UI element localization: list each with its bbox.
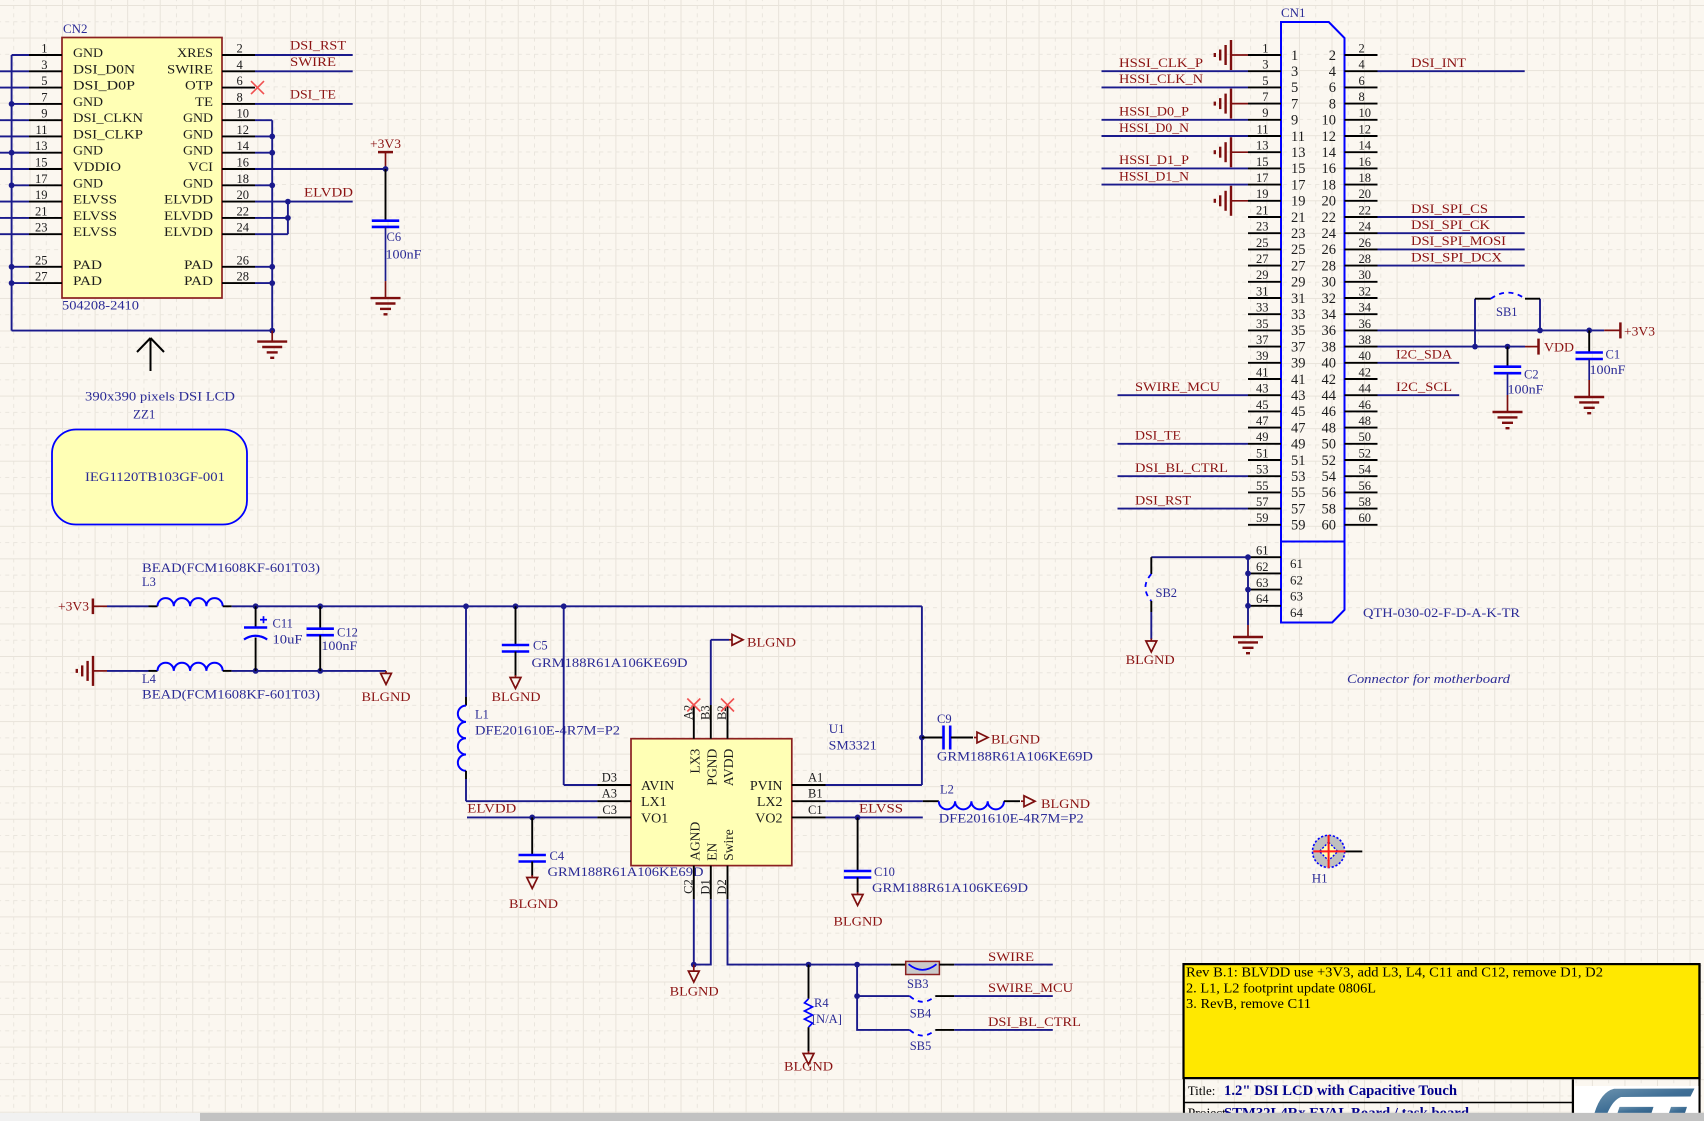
wire CN2 pin 13 to sheet edge: [0, 152, 29, 154]
CN2 pin 27 (PAD): [29, 282, 62, 284]
svg-text:24: 24: [1322, 226, 1337, 242]
wire SWIRE: [954, 964, 1053, 966]
svg-text:VDD: VDD: [1544, 340, 1574, 355]
CN1 pin 53: [1248, 475, 1281, 477]
svg-text:BLGND: BLGND: [509, 896, 558, 911]
svg-text:GRM188R61A106KE69D: GRM188R61A106KE69D: [872, 881, 1028, 895]
svg-text:L2: L2: [940, 783, 954, 797]
svg-text:1: 1: [41, 42, 47, 56]
CN1 pin 50: [1345, 443, 1378, 445]
svg-text:DSI_SPI_MOSI: DSI_SPI_MOSI: [1411, 233, 1506, 248]
CN1 pin 5: [1248, 86, 1281, 88]
wire CN1 pins 61-64 to ground: [1247, 557, 1249, 625]
wire HSSI_D0_P: [1102, 119, 1249, 121]
svg-text:GND: GND: [183, 175, 213, 190]
svg-text:L3: L3: [142, 575, 156, 589]
capacitor C2: [1507, 347, 1509, 367]
svg-text:I2C_SCL: I2C_SCL: [1396, 379, 1452, 394]
svg-text:DSI_SPI_DCX: DSI_SPI_DCX: [1411, 249, 1503, 264]
CN2 pin 15 (VDDIO): [29, 168, 62, 170]
svg-text:A1: A1: [808, 771, 823, 785]
svg-text:6: 6: [237, 74, 243, 88]
svg-text:R4: R4: [814, 996, 829, 1010]
wire +3V3 rail to U1: [232, 605, 922, 607]
svg-text:ELVSS: ELVSS: [73, 224, 117, 239]
CN1 pin 34: [1345, 313, 1378, 315]
svg-text:20: 20: [1359, 187, 1372, 201]
svg-text:BLGND: BLGND: [784, 1058, 833, 1073]
svg-text:C6: C6: [387, 230, 402, 244]
svg-text:57: 57: [1291, 501, 1306, 517]
solder bridge SB3 (closed): [891, 964, 906, 966]
svg-text:5: 5: [1262, 74, 1268, 88]
CN1 pin 46: [1345, 410, 1378, 412]
CN2 pin 18 (GND): [222, 184, 255, 186]
junction Swire branch: [854, 962, 860, 968]
svg-text:DSI_TE: DSI_TE: [290, 86, 336, 101]
wire CN2 pin 18 to right GND bus: [255, 184, 272, 186]
svg-text:AGND: AGND: [687, 822, 702, 861]
wire SWIRE_MCU: [954, 995, 1053, 997]
svg-text:DSI_RST: DSI_RST: [290, 38, 346, 53]
svg-text:SB1: SB1: [1496, 305, 1518, 319]
wire AGND down: [693, 899, 695, 964]
U1 pin A1 (PVIN): [792, 784, 826, 786]
capacitor C12: [319, 606, 321, 628]
svg-text:54: 54: [1322, 469, 1337, 485]
svg-text:18: 18: [237, 172, 250, 186]
svg-text:SB4: SB4: [910, 1007, 932, 1021]
junction right GND bus pin 28: [269, 280, 275, 286]
svg-text:63: 63: [1290, 589, 1303, 604]
svg-text:D2: D2: [715, 879, 729, 894]
CN2 pin 17 (GND): [29, 184, 62, 186]
wire VDD net from CN1 pin 38: [1378, 346, 1526, 348]
CN1 pin 31: [1248, 297, 1281, 299]
connector CN2 body: [62, 38, 222, 299]
wire ELVSS from VO2: [826, 816, 923, 818]
CN1 pin 43: [1248, 394, 1281, 396]
svg-text:VDDIO: VDDIO: [73, 159, 121, 174]
wire I2C_SDA: [1378, 362, 1460, 364]
CN2 pin 1 (GND): [29, 54, 62, 56]
power port +3V3 right: [1604, 329, 1620, 331]
svg-text:61: 61: [1290, 556, 1303, 571]
svg-text:9: 9: [1262, 106, 1268, 120]
svg-text:IEG1120TB103GF-001: IEG1120TB103GF-001: [85, 469, 225, 484]
svg-text:35: 35: [1256, 317, 1269, 331]
power port VDD: [1525, 346, 1539, 348]
svg-text:DSI_BL_CTRL: DSI_BL_CTRL: [1135, 460, 1228, 475]
CN1 pin 15: [1248, 167, 1281, 169]
svg-text:58: 58: [1359, 495, 1372, 509]
svg-text:49: 49: [1256, 430, 1269, 444]
wire HSSI_CLK_P: [1102, 70, 1249, 72]
CN1 pin 37: [1248, 346, 1281, 348]
svg-text:ELVSS: ELVSS: [859, 800, 903, 815]
svg-text:CN1: CN1: [1281, 5, 1306, 20]
junction SWIRE_MCU branch: [854, 993, 860, 999]
svg-text:BLGND: BLGND: [492, 689, 541, 704]
U1 pin B2 (AVDD): [727, 705, 729, 739]
U1 pin D1 (EN): [710, 866, 712, 900]
wire DSI_BL_CTRL lower: [954, 1029, 1053, 1031]
svg-text:56: 56: [1359, 479, 1372, 493]
CN2 pin 10 (GND): [222, 119, 255, 121]
U1 pin B3 (PGND): [710, 705, 712, 739]
svg-text:SWIRE: SWIRE: [988, 949, 1034, 964]
svg-text:D3: D3: [602, 771, 617, 785]
svg-text:1: 1: [1291, 48, 1298, 64]
svg-text:4: 4: [1329, 64, 1337, 80]
svg-text:43: 43: [1256, 382, 1269, 396]
power port BLGND below C4: [531, 875, 533, 878]
CN2 pin 22 (ELVDD): [222, 217, 255, 219]
wire CN2 pin 11 to sheet edge: [0, 135, 29, 137]
svg-text:2: 2: [1329, 48, 1336, 64]
svg-text:BLGND: BLGND: [834, 914, 883, 929]
CN1 pin 52: [1345, 459, 1378, 461]
junction ELVDD pin 20: [285, 199, 291, 205]
wire AVIN branch: [563, 606, 565, 785]
svg-text:25: 25: [1256, 236, 1269, 250]
svg-text:8: 8: [1329, 96, 1336, 112]
svg-text:25: 25: [1291, 242, 1306, 258]
CN1 pin 40: [1345, 362, 1378, 364]
wire CN2 pin 15 to sheet edge: [0, 168, 29, 170]
svg-text:31: 31: [1291, 291, 1306, 307]
svg-text:60: 60: [1322, 518, 1337, 534]
svg-text:62: 62: [1290, 572, 1303, 587]
ground symbol at CN1 pin 19: [1231, 200, 1248, 202]
svg-text:C2: C2: [682, 879, 696, 894]
svg-text:L4: L4: [142, 672, 157, 686]
junction GND bus pin 25: [9, 264, 15, 270]
junction ELVSS C10: [855, 815, 861, 821]
svg-text:33: 33: [1291, 307, 1306, 323]
CN1 pin 64: [1248, 605, 1281, 607]
inductor L1: [465, 606, 467, 697]
svg-text:B1: B1: [808, 787, 823, 801]
svg-text:10: 10: [237, 107, 250, 121]
CN1 pin 27: [1248, 265, 1281, 267]
svg-text:46: 46: [1322, 404, 1337, 420]
U1 pin D3 (AVIN): [597, 784, 631, 786]
CN2 pin 6 (OTP): [222, 87, 255, 89]
CN1 pin 14: [1345, 151, 1378, 153]
svg-text:32: 32: [1322, 291, 1337, 307]
svg-text:8: 8: [237, 90, 243, 104]
wire to SB4/SB5: [857, 965, 910, 1030]
svg-text:60: 60: [1359, 511, 1372, 525]
svg-text:13: 13: [35, 139, 48, 153]
svg-text:DSI_BL_CTRL: DSI_BL_CTRL: [988, 1014, 1081, 1029]
wire CN2 pin 1 to GND bus: [12, 54, 29, 56]
svg-text:AVIN: AVIN: [641, 779, 674, 794]
CN1 pin 44: [1345, 394, 1378, 396]
svg-text:58: 58: [1322, 501, 1337, 517]
wire CN2 pin 17 to GND bus: [12, 184, 29, 186]
CN2 pin 24 (ELVDD): [222, 233, 255, 235]
power port BLGND below SB2: [1150, 639, 1152, 642]
junction AGND/EN: [691, 962, 697, 968]
svg-text:9: 9: [1291, 113, 1298, 129]
CN1 pin 11: [1248, 135, 1281, 137]
svg-text:27: 27: [1256, 252, 1269, 266]
ST logo: [1575, 1086, 1699, 1113]
svg-text:BLGND: BLGND: [1041, 796, 1090, 811]
svg-text:4: 4: [1359, 58, 1366, 72]
wire ELVDD pins 20/22/24: [255, 201, 288, 203]
svg-text:53: 53: [1291, 469, 1306, 485]
CN2 pin 14 (GND): [222, 152, 255, 154]
svg-text:SWIRE_MCU: SWIRE_MCU: [988, 980, 1074, 995]
svg-text:VO1: VO1: [641, 811, 668, 826]
svg-text:BLGND: BLGND: [670, 984, 719, 999]
junction SB1 right leg: [1537, 328, 1543, 334]
regulator U1 body: [631, 739, 792, 866]
svg-text:21: 21: [35, 204, 48, 218]
wire HSSI_D0_N: [1102, 135, 1249, 137]
CN2 pin 2 (XRES): [222, 54, 255, 56]
svg-text:SWIRE: SWIRE: [167, 61, 213, 76]
wire DSI_SPI_DCX: [1378, 265, 1525, 267]
CN1 pin 24: [1345, 232, 1378, 234]
inductor L2: [923, 800, 939, 802]
junction C2 top: [1505, 344, 1511, 350]
junction pin 63: [1245, 587, 1251, 593]
wire EN down to AGND: [694, 899, 711, 964]
svg-text:52: 52: [1322, 453, 1337, 469]
CN1 pin 55: [1248, 491, 1281, 493]
power port BLGND below C5: [515, 675, 517, 678]
solder bridge SB4 (open): [910, 996, 936, 1002]
svg-text:VCI: VCI: [188, 159, 213, 174]
svg-text:23: 23: [1256, 220, 1269, 234]
svg-text:C2: C2: [1524, 367, 1539, 381]
svg-text:12: 12: [237, 123, 250, 137]
svg-text:7: 7: [1291, 96, 1298, 112]
svg-text:50: 50: [1322, 437, 1337, 453]
CN1 pin 61: [1248, 556, 1281, 558]
svg-text:5: 5: [41, 74, 47, 88]
wire PGND to BLGND: [710, 640, 712, 705]
svg-text:63: 63: [1256, 576, 1269, 590]
svg-text:32: 32: [1359, 284, 1372, 298]
svg-text:HSSI_D0_N: HSSI_D0_N: [1119, 120, 1190, 135]
svg-text:DFE201610E-4R7M=P2: DFE201610E-4R7M=P2: [939, 812, 1084, 826]
svg-text:CN2: CN2: [63, 21, 88, 36]
svg-text:OTP: OTP: [185, 78, 213, 93]
svg-text:28: 28: [237, 270, 250, 284]
solder bridge SB5 (open): [910, 1030, 936, 1036]
svg-text:Title:: Title:: [1188, 1083, 1216, 1098]
CN1 pin 12: [1345, 135, 1378, 137]
svg-text:42: 42: [1359, 365, 1372, 379]
wire CN2 pin 23 to sheet edge: [0, 233, 29, 235]
svg-text:B3: B3: [699, 705, 713, 720]
CN1 pin 22: [1345, 216, 1378, 218]
junction GND bus pin 7: [9, 101, 15, 107]
svg-text:U1: U1: [829, 721, 845, 736]
svg-text:BEAD(FCM1608KF-601T03): BEAD(FCM1608KF-601T03): [142, 561, 320, 575]
ground symbol below pins 61-64: [1247, 625, 1249, 637]
junction GND bus pin 13: [9, 150, 15, 156]
wire GND bus right of CN2: [271, 120, 273, 330]
svg-text:DSI_SPI_CK: DSI_SPI_CK: [1411, 217, 1491, 232]
wire CN2 pin 13 to GND bus: [12, 152, 29, 154]
CN1 pin 35: [1248, 329, 1281, 331]
svg-text:ELVDD: ELVDD: [164, 192, 213, 207]
svg-text:18: 18: [1322, 177, 1337, 193]
svg-text:PVIN: PVIN: [750, 779, 783, 794]
svg-text:40: 40: [1359, 349, 1372, 363]
svg-text:ELVSS: ELVSS: [73, 192, 117, 207]
junction rail AVIN branch: [561, 603, 567, 609]
wire GND bus left of CN2: [11, 55, 13, 331]
svg-text:BLGND: BLGND: [1126, 652, 1175, 667]
svg-text:41: 41: [1291, 372, 1306, 388]
svg-text:QTH-030-02-F-D-A-K-TR: QTH-030-02-F-D-A-K-TR: [1363, 605, 1520, 620]
svg-text:59: 59: [1291, 518, 1306, 534]
svg-text:GND: GND: [73, 143, 103, 158]
junction right GND bus pin 18: [269, 182, 275, 188]
CN1 pin 30: [1345, 281, 1378, 283]
svg-text:43: 43: [1291, 388, 1306, 404]
wire PVIN: [826, 784, 922, 786]
power port BLGND right of PGND: [729, 639, 732, 641]
CN1 pin 60: [1345, 524, 1378, 526]
svg-text:DSI_D0P: DSI_D0P: [73, 78, 135, 93]
svg-text:50: 50: [1359, 430, 1372, 444]
no-connect X on CN2 pin 6: [251, 81, 264, 94]
power port BLGND below C10: [857, 892, 859, 895]
svg-text:504208-2410: 504208-2410: [62, 299, 139, 313]
power port BLGND right of C9: [974, 737, 977, 739]
svg-text:ELVDD: ELVDD: [467, 800, 516, 815]
svg-text:20: 20: [237, 188, 250, 202]
U1 pin C2 (AGND): [693, 866, 695, 900]
svg-text:3: 3: [1291, 64, 1298, 80]
svg-text:55: 55: [1256, 479, 1269, 493]
svg-text:C10: C10: [874, 865, 895, 879]
wire DSI_RST from CN2 pin 2: [255, 54, 353, 56]
svg-text:10: 10: [1322, 113, 1337, 129]
resistor R4: [808, 965, 810, 999]
wire VCI pin16 to +3V3: [255, 168, 386, 170]
wire ELVDD to VO1: [467, 816, 597, 818]
wire CN2 pin 7 to GND bus: [12, 103, 29, 105]
CN1 pin 47: [1248, 427, 1281, 429]
capacitor C5: [515, 606, 517, 645]
svg-text:38: 38: [1322, 339, 1337, 355]
ground symbol below C6: [385, 281, 387, 298]
CN1 pin 7: [1248, 103, 1281, 105]
junction pin 61: [1245, 554, 1251, 560]
svg-text:3: 3: [1262, 58, 1268, 72]
scrollbar: [0, 1113, 1704, 1121]
svg-text:3: 3: [41, 58, 47, 72]
CN1 pin 33: [1248, 313, 1281, 315]
svg-text:GND: GND: [73, 175, 103, 190]
svg-text:52: 52: [1359, 446, 1372, 460]
svg-text:51: 51: [1291, 453, 1306, 469]
svg-text:2. L1, L2 footprint update 080: 2. L1, L2 footprint update 0806L: [1186, 980, 1376, 995]
CN1 pin 18: [1345, 184, 1378, 186]
svg-text:37: 37: [1256, 333, 1269, 347]
svg-text:29: 29: [1291, 275, 1306, 291]
CN1 pin 21: [1248, 216, 1281, 218]
CN2 pin 16 (VCI): [222, 168, 255, 170]
junction rail C11: [253, 603, 259, 609]
svg-text:62: 62: [1256, 560, 1269, 574]
svg-text:+3V3: +3V3: [370, 136, 401, 151]
CN1 pin 39: [1248, 362, 1281, 364]
wire DSI_SPI_CS: [1378, 216, 1525, 218]
power port BLGND arrow (filter): [385, 671, 387, 674]
wire CN2 pin 12 to right GND bus: [255, 135, 272, 137]
CN1 pin 41: [1248, 378, 1281, 380]
svg-text:12: 12: [1322, 129, 1337, 145]
svg-text:17: 17: [1256, 171, 1269, 185]
CN1 pin 13: [1248, 151, 1281, 153]
wire CN2 pin 28 to right GND bus: [255, 282, 272, 284]
CN1 pin 26: [1345, 248, 1378, 250]
CN1 pin 45: [1248, 410, 1281, 412]
svg-text:48: 48: [1359, 414, 1372, 428]
capacitor C6: [385, 169, 387, 221]
wire +3V3 net from CN1 pin 36: [1378, 329, 1605, 331]
capacitor C1: [1588, 330, 1590, 352]
svg-text:24: 24: [1359, 220, 1372, 234]
CN1 pin 17: [1248, 184, 1281, 186]
ground symbol below CN2 bus: [271, 331, 273, 342]
no-connect X on U1 pin B2: [721, 699, 734, 712]
wire CN2 pin 26 to right GND bus: [255, 266, 272, 268]
wire CN2 pin 10 to right GND bus: [255, 119, 272, 121]
power port BLGND below AGND: [693, 965, 695, 972]
svg-text:19: 19: [35, 188, 48, 202]
svg-text:17: 17: [35, 172, 48, 186]
wire CN2 pin 21 to sheet edge: [0, 217, 29, 219]
svg-text:100nF: 100nF: [1590, 363, 1626, 377]
svg-text:29: 29: [1256, 268, 1269, 282]
svg-text:SWIRE: SWIRE: [290, 54, 336, 69]
svg-text:22: 22: [1322, 210, 1337, 226]
connector CN1 body lower: [1281, 542, 1345, 623]
CN1 pin 58: [1345, 508, 1378, 510]
svg-text:SB5: SB5: [910, 1039, 932, 1053]
svg-text:64: 64: [1256, 592, 1269, 606]
svg-text:26: 26: [1359, 236, 1372, 250]
svg-text:BLGND: BLGND: [747, 634, 796, 649]
svg-text:A2: A2: [682, 705, 696, 720]
svg-text:19: 19: [1291, 194, 1306, 210]
CN2 pin 25 (PAD): [29, 266, 62, 268]
svg-text:56: 56: [1322, 485, 1337, 501]
wire DSI_RST at CN1: [1118, 508, 1249, 510]
ground symbol below C2: [1507, 395, 1509, 412]
ferrite bead L4: [107, 670, 149, 672]
svg-text:47: 47: [1256, 414, 1269, 428]
capacitor C4: [531, 817, 533, 855]
svg-text:ELVDD: ELVDD: [164, 224, 213, 239]
wire SWIRE from CN2 pin 4: [255, 70, 353, 72]
svg-text:39: 39: [1256, 349, 1269, 363]
svg-text:47: 47: [1291, 420, 1306, 436]
svg-text:TE: TE: [195, 94, 213, 109]
U1 pin C1 (VO2): [792, 816, 826, 818]
